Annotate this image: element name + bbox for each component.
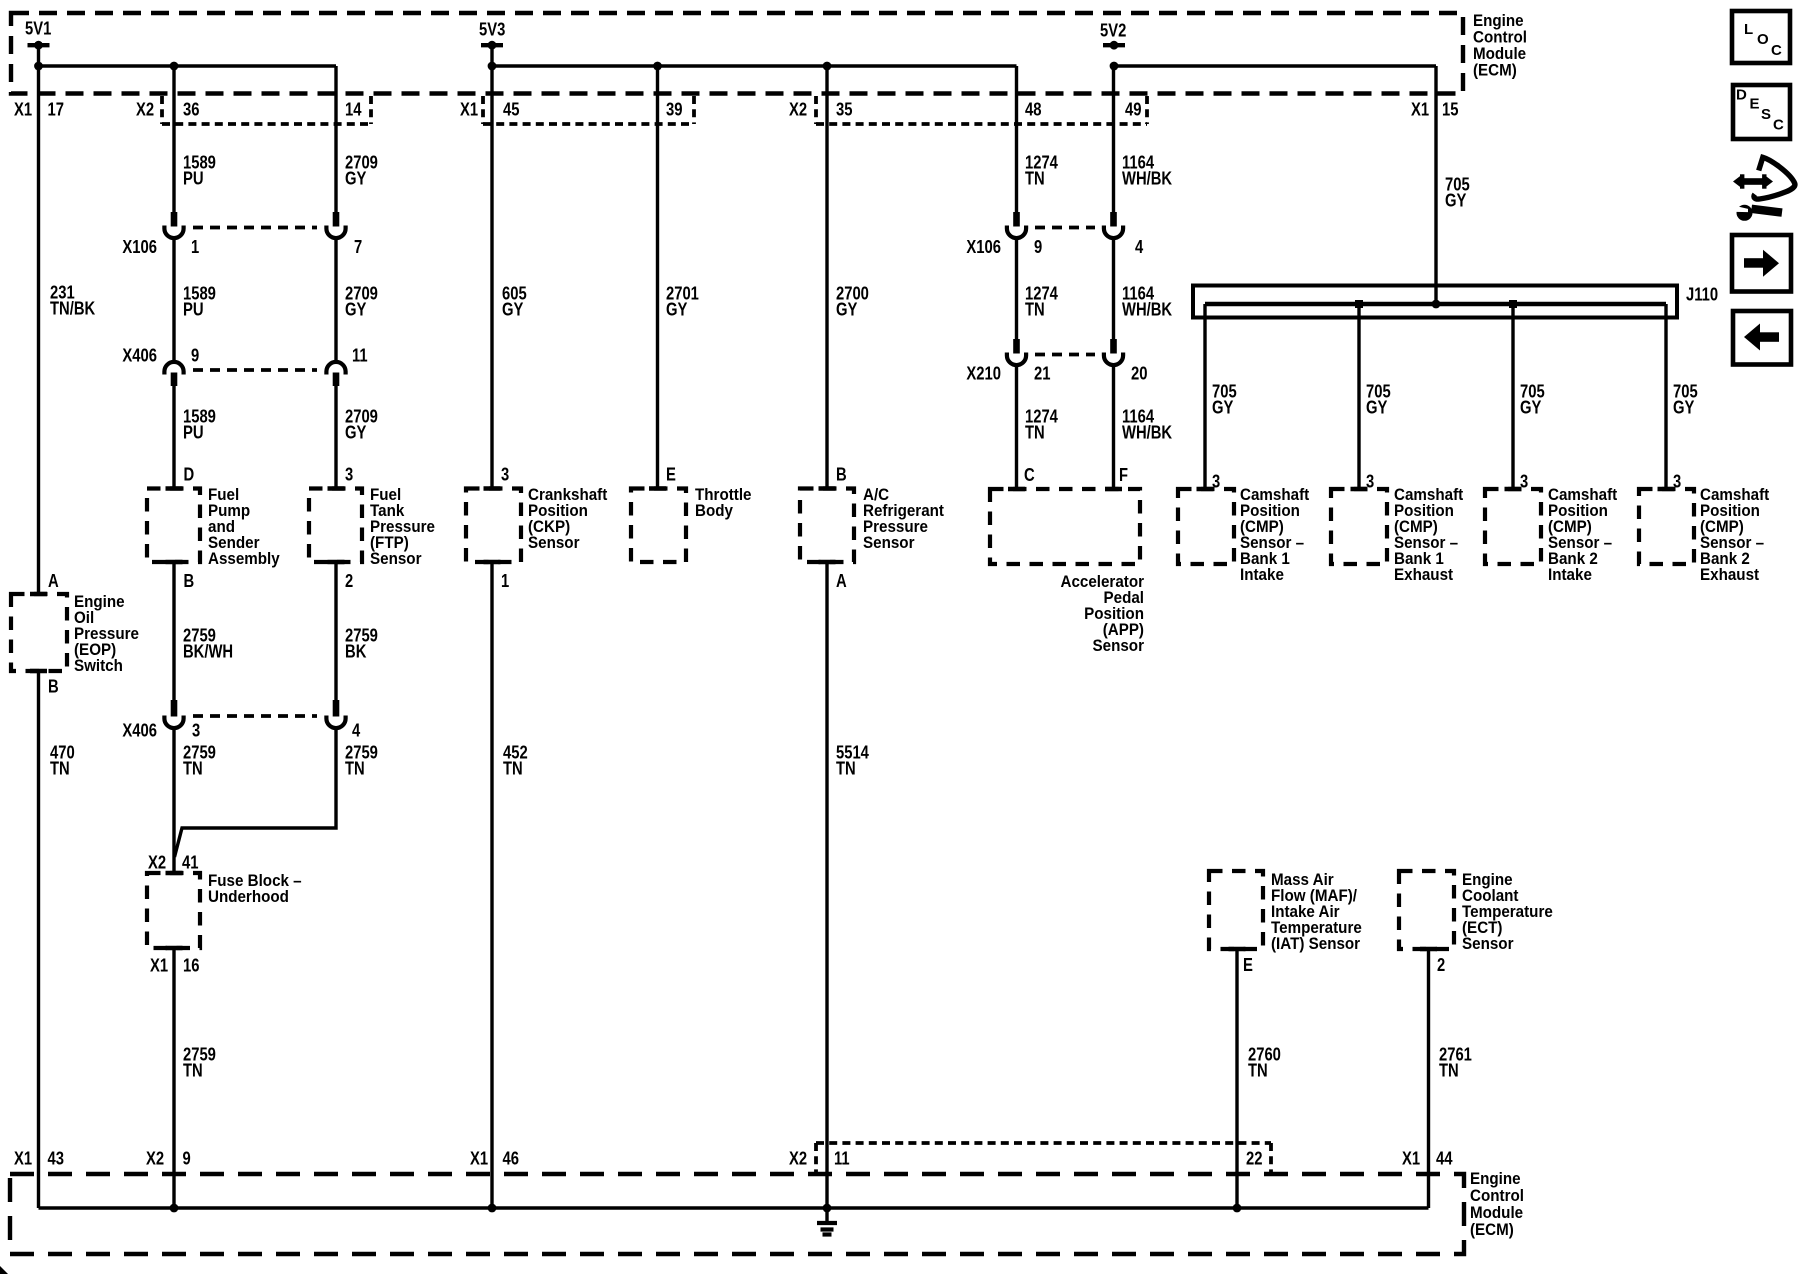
svg-text:(ECM): (ECM) — [1473, 62, 1517, 80]
splice pack J110 — [1193, 284, 1718, 318]
svg-text:9: 9 — [1034, 236, 1042, 257]
CMP sensor 4 label — [1700, 486, 1770, 584]
svg-text:B: B — [836, 464, 847, 485]
svg-text:Engine: Engine — [1473, 12, 1524, 30]
svg-text:9: 9 — [191, 345, 199, 366]
wire 705 GY (J110 to CMP sensor 1) — [1205, 304, 1237, 489]
connector X2 bracket (pins 11,22) — [816, 1143, 1271, 1172]
svg-text:GY: GY — [1366, 397, 1388, 418]
connector X106 pin 9 — [966, 212, 1042, 257]
terminal 5V2 — [1100, 20, 1126, 50]
ECM pin 22 — [1246, 1148, 1263, 1169]
svg-text:14: 14 — [345, 99, 362, 120]
svg-text:Sensor: Sensor — [1093, 637, 1145, 655]
ECM pin X2 35 — [789, 99, 853, 120]
ECM pin 49 — [1125, 99, 1142, 120]
svg-text:43: 43 — [48, 1148, 65, 1169]
svg-text:22: 22 — [1246, 1148, 1263, 1169]
svg-text:48: 48 — [1025, 99, 1042, 120]
svg-text:X406: X406 — [122, 345, 157, 366]
svg-text:WH/BK: WH/BK — [1122, 168, 1173, 189]
ECM pin X1 44 — [1402, 1148, 1453, 1169]
EOP pin A — [48, 570, 59, 591]
accelerator pedal position sensor box — [990, 489, 1140, 564]
svg-text:GY: GY — [345, 168, 367, 189]
svg-text:9: 9 — [183, 1148, 191, 1169]
svg-text:GY: GY — [345, 422, 367, 443]
svg-text:X1: X1 — [150, 955, 168, 976]
svg-text:Body: Body — [695, 502, 734, 520]
svg-text:Module: Module — [1473, 45, 1526, 63]
FTP sensor pin 3 — [345, 464, 353, 485]
svg-text:L: L — [1744, 21, 1753, 38]
X106 link dashes (9-4) — [1035, 226, 1095, 230]
wire 705 GY (J110 to CMP sensor 3) — [1513, 304, 1545, 489]
svg-text:GY: GY — [666, 299, 688, 320]
svg-text:Exhaust: Exhaust — [1394, 566, 1454, 584]
svg-text:X1: X1 — [460, 99, 478, 120]
svg-text:1: 1 — [501, 570, 509, 591]
connector X106 pin 1 — [122, 212, 199, 257]
wire 2700 GY (X2-35 to A/C sensor B) — [827, 66, 869, 489]
X210 link dashes (21-20) — [1035, 353, 1095, 357]
connector X2 bracket (pins 36,14) — [162, 96, 371, 124]
svg-text:Control: Control — [1473, 29, 1527, 47]
X106 link dashes (1-7) — [193, 226, 317, 230]
svg-text:BK/WH: BK/WH — [183, 641, 233, 662]
svg-text:39: 39 — [666, 99, 683, 120]
svg-text:O: O — [1757, 31, 1769, 48]
ECM bottom label — [1470, 1170, 1524, 1239]
svg-text:GY: GY — [502, 299, 524, 320]
svg-text:49: 49 — [1125, 99, 1142, 120]
ground G103 — [817, 1208, 837, 1235]
wire 2761 TN (ECT 2 to X1-44) — [1429, 949, 1472, 1208]
FTP sensor pin 2 — [345, 570, 353, 591]
svg-text:PU: PU — [183, 168, 204, 189]
svg-text:GY: GY — [836, 299, 858, 320]
wire 2759 TN (X406-3 to fuse block X2-41) — [174, 728, 216, 873]
svg-text:X1: X1 — [470, 1148, 488, 1169]
svg-text:36: 36 — [183, 99, 200, 120]
fuel tank pressure sensor box — [309, 489, 362, 563]
connector X406 pin 3 — [122, 700, 200, 741]
svg-text:17: 17 — [48, 99, 65, 120]
CMP sensor 3 pin 3 — [1520, 471, 1528, 492]
svg-text:X1: X1 — [14, 1148, 32, 1169]
wire 1164 WH/BK (5V2 pin 49 to X106-4) — [1114, 66, 1173, 212]
svg-text:D: D — [184, 464, 195, 485]
fuel pump label — [208, 486, 280, 568]
wire 5V1 bus — [34, 62, 336, 71]
svg-text:A: A — [48, 570, 59, 591]
FTP sensor label — [370, 486, 435, 568]
svg-text:X1: X1 — [14, 99, 32, 120]
CKP sensor pin 3 — [501, 464, 509, 485]
ECM pin X1 43 — [14, 1148, 64, 1169]
fuel pump and sender assembly box — [147, 489, 200, 563]
wire 2760 TN (MAF E to pin 22) — [1237, 949, 1281, 1208]
svg-text:Intake: Intake — [1548, 566, 1592, 584]
throttle body label — [695, 486, 752, 520]
A/C sensor label — [863, 486, 944, 552]
wire 2759 BK/WH (fuel pump B to X406-3) — [174, 562, 233, 700]
svg-text:5V1: 5V1 — [25, 18, 51, 39]
wire 2709 GY (pin 14 to X106-7) — [336, 66, 378, 212]
svg-text:Sensor: Sensor — [1462, 935, 1514, 953]
ECM pin X1 46 — [470, 1148, 519, 1169]
svg-text:TN: TN — [345, 758, 365, 779]
wire 1164 WH/BK (X210-20 to APP sensor F) — [1114, 365, 1173, 489]
svg-text:TN: TN — [503, 758, 523, 779]
svg-text:15: 15 — [1442, 99, 1459, 120]
svg-text:X106: X106 — [966, 236, 1001, 257]
MAF/IAT sensor label — [1271, 871, 1362, 953]
svg-text:5V3: 5V3 — [479, 19, 505, 40]
CMP sensor 1 label — [1240, 486, 1310, 584]
svg-text:B: B — [184, 570, 195, 591]
svg-text:Control: Control — [1470, 1187, 1524, 1205]
wire 2709 GY (X106-7 to X406-11) — [336, 238, 378, 360]
wire 1589 PU (X406-9 to fuel pump D) — [174, 386, 216, 489]
svg-text:11: 11 — [352, 345, 368, 366]
svg-text:PU: PU — [183, 422, 204, 443]
svg-text:C: C — [1771, 42, 1782, 59]
svg-text:WH/BK: WH/BK — [1122, 299, 1173, 320]
ECM pin X2 36 — [136, 99, 200, 120]
throttle body box — [631, 489, 686, 563]
connector X210 pin 20 — [1104, 339, 1148, 384]
terminal 5V1 — [25, 18, 51, 50]
ECM pin 14 — [345, 99, 362, 120]
svg-text:X2: X2 — [136, 99, 154, 120]
svg-text:WH/BK: WH/BK — [1122, 422, 1173, 443]
EOP switch label — [74, 593, 139, 675]
svg-text:3: 3 — [192, 720, 200, 741]
ECT sensor label — [1462, 871, 1553, 953]
svg-text:E: E — [1243, 954, 1253, 975]
wire 5V3 bus — [488, 62, 1017, 71]
ECT pin 2 — [1437, 954, 1445, 975]
svg-text:J110: J110 — [1686, 284, 1718, 305]
svg-text:B: B — [48, 676, 59, 697]
ECM pin X1 45 — [460, 99, 520, 120]
wire 2759 BK (FTP 2 to X406-4) — [336, 562, 378, 700]
svg-text:C: C — [1024, 464, 1035, 485]
svg-text:(ECM): (ECM) — [1470, 1221, 1514, 1239]
svg-text:PU: PU — [183, 299, 204, 320]
svg-text:45: 45 — [503, 99, 520, 120]
camshaft position sensor box 3 — [1485, 489, 1541, 564]
wire 705 GY (X1-15 to J110) — [1436, 66, 1470, 304]
wire 705 GY (J110 to CMP sensor 2) — [1359, 304, 1391, 489]
forward arrow icon box — [1732, 235, 1791, 292]
connector X406 pin 11 — [326, 345, 367, 387]
wire 1274 TN (X210-21 to APP sensor C) — [1017, 365, 1059, 489]
back arrow icon box — [1733, 311, 1791, 365]
svg-text:Underhood: Underhood — [208, 888, 289, 906]
svg-text:X106: X106 — [122, 236, 157, 257]
svg-text:X2: X2 — [148, 852, 166, 873]
svg-text:5V2: 5V2 — [1100, 20, 1126, 41]
connector X1 bracket (pins 45,39) — [483, 96, 694, 124]
svg-text:4: 4 — [1135, 236, 1144, 257]
svg-text:TN: TN — [1025, 168, 1045, 189]
A/C sensor pin A — [836, 570, 847, 591]
crankshaft position sensor box — [466, 489, 521, 563]
camshaft position sensor box 4 — [1639, 489, 1694, 564]
page corner mark — [0, 1266, 8, 1274]
svg-text:Exhaust: Exhaust — [1700, 566, 1760, 584]
svg-text:Sensor: Sensor — [370, 550, 422, 568]
svg-text:Module: Module — [1470, 1204, 1523, 1222]
svg-text:44: 44 — [1436, 1148, 1453, 1169]
svg-text:TN/BK: TN/BK — [50, 298, 96, 319]
APP sensor pin F — [1119, 464, 1128, 485]
svg-text:Engine: Engine — [1470, 1170, 1521, 1188]
fuse block label — [208, 872, 302, 906]
svg-text:X1: X1 — [1402, 1148, 1420, 1169]
svg-text:TN: TN — [1025, 299, 1045, 320]
terminal 5V3 — [479, 19, 505, 50]
wire 231 TN/BK (X1-17 to EOP A) — [39, 45, 96, 594]
svg-text:20: 20 — [1131, 363, 1148, 384]
CMP sensor 2 label — [1394, 486, 1464, 584]
svg-text:3: 3 — [501, 464, 509, 485]
CKP sensor label — [528, 486, 608, 552]
svg-text:E: E — [1750, 95, 1760, 112]
connector X2 bracket (pins 35,48,49) — [816, 96, 1147, 124]
CMP sensor 2 pin 3 — [1366, 471, 1374, 492]
wire 470 TN (EOP B to ground bus) — [39, 671, 75, 1208]
ECM bottom dashed box (Engine Control Module) — [10, 1174, 1464, 1254]
wire 1164 WH/BK (X106-4 to X210-20) — [1114, 238, 1173, 339]
svg-text:GY: GY — [345, 299, 367, 320]
svg-text:GY: GY — [1445, 190, 1467, 211]
svg-text:GY: GY — [1673, 397, 1695, 418]
fuse block underhood box — [147, 873, 200, 948]
svg-text:35: 35 — [836, 99, 853, 120]
X406 link dashes (9-11) — [193, 368, 317, 372]
svg-text:S: S — [1761, 106, 1771, 123]
svg-text:Assembly: Assembly — [208, 550, 280, 568]
ECM pin X1 15 — [1411, 99, 1459, 120]
wire 452 TN (CKP 1 to X1-46) — [492, 562, 528, 1208]
svg-text:BK: BK — [345, 641, 367, 662]
APP sensor label — [1061, 573, 1145, 655]
throttle body pin E — [666, 464, 676, 485]
ECM pin 39 — [666, 99, 683, 120]
wire 2701 GY (pin 39 to throttle body E) — [658, 66, 699, 489]
svg-text:A: A — [836, 570, 847, 591]
svg-text:F: F — [1119, 464, 1128, 485]
wire 1589 PU (X106-1 to X406-9) — [174, 238, 216, 360]
svg-text:TN: TN — [183, 758, 203, 779]
svg-text:X2: X2 — [789, 1148, 807, 1169]
svg-text:TN: TN — [836, 758, 856, 779]
svg-text:X2: X2 — [789, 99, 807, 120]
fuel pump pin D — [184, 464, 195, 485]
svg-text:11: 11 — [834, 1148, 850, 1169]
svg-text:Sensor: Sensor — [863, 534, 915, 552]
svg-text:TN: TN — [183, 1060, 203, 1081]
X406 link dashes (3-4) — [193, 714, 317, 718]
wire 1589 PU (X2-36 to X106-1) — [174, 66, 216, 212]
LOC icon box — [1732, 11, 1790, 63]
connector X106 pin 7 — [326, 212, 362, 257]
svg-text:Sensor: Sensor — [528, 534, 580, 552]
svg-text:X1: X1 — [1411, 99, 1429, 120]
camshaft position sensor box 2 — [1331, 489, 1387, 564]
wire 2759 TN (X406-4 to fuse block) — [175, 728, 378, 857]
svg-text:GY: GY — [1520, 397, 1542, 418]
CKP sensor pin 1 — [501, 570, 509, 591]
MAF pin E — [1243, 954, 1253, 975]
svg-text:D: D — [1736, 86, 1747, 103]
svg-text:41: 41 — [182, 852, 199, 873]
svg-text:16: 16 — [183, 955, 200, 976]
DESC icon box — [1733, 85, 1790, 139]
wire 2709 GY (X406-11 to FTP sensor 3) — [336, 386, 378, 489]
CMP sensor 1 pin 3 — [1212, 471, 1220, 492]
ECM top dashed box (Engine Control Module) — [11, 13, 1463, 94]
camshaft position sensor box 1 — [1178, 489, 1234, 564]
fuse block pin X1 16 — [150, 955, 200, 976]
CMP sensor 4 pin 3 — [1673, 471, 1681, 492]
CMP sensor 3 label — [1548, 486, 1618, 584]
ECT sensor box — [1399, 871, 1454, 949]
wire 605 GY (X1-45 to CKP sensor 3) — [492, 45, 527, 488]
svg-text:4: 4 — [352, 720, 361, 741]
wire 5514 TN (A/C A to X2-11) — [827, 562, 869, 1208]
wire 705 GY (J110 to CMP sensor 4) — [1666, 304, 1698, 489]
APP sensor pin C — [1024, 464, 1035, 485]
ECM top label — [1473, 12, 1527, 80]
svg-text:(IAT) Sensor: (IAT) Sensor — [1271, 935, 1361, 953]
ground bus wire — [39, 1204, 1429, 1213]
svg-text:X210: X210 — [966, 363, 1001, 384]
wire 1274 TN (X106-9 to X210-21) — [1017, 238, 1059, 339]
ECM pin 48 — [1025, 99, 1042, 120]
connector X106 pin 4 — [1104, 212, 1144, 257]
svg-text:TN: TN — [1439, 1060, 1459, 1081]
svg-text:GY: GY — [1212, 397, 1234, 418]
wire 5V2 bus — [1110, 62, 1436, 71]
connector X210 pin 21 — [966, 339, 1050, 384]
A/C refrigerant pressure sensor box — [800, 489, 854, 563]
svg-text:2: 2 — [1437, 954, 1445, 975]
wire 2759 TN (fuse block X1-16 to X2-9) — [174, 948, 216, 1208]
svg-text:21: 21 — [1034, 363, 1051, 384]
svg-text:3: 3 — [345, 464, 353, 485]
ECM pin X2 11 — [789, 1148, 850, 1169]
fuse block pin X2 41 — [148, 852, 199, 873]
svg-text:X406: X406 — [122, 720, 157, 741]
ECM pin X2 9 — [146, 1148, 191, 1169]
connector X406 pin 4 — [326, 700, 360, 741]
A/C sensor pin B — [836, 464, 847, 485]
fuel pump pin B — [184, 570, 195, 591]
svg-text:X2: X2 — [146, 1148, 164, 1169]
svg-text:Intake: Intake — [1240, 566, 1284, 584]
svg-text:46: 46 — [503, 1148, 520, 1169]
svg-text:TN: TN — [50, 758, 70, 779]
svg-text:C: C — [1773, 116, 1784, 133]
engine oil pressure switch box — [11, 594, 67, 671]
svg-text:Switch: Switch — [74, 657, 123, 675]
EOP pin B — [48, 676, 59, 697]
wire 1274 TN (pin 48 to X106-9) — [1017, 66, 1059, 212]
MAF/IAT sensor box — [1209, 871, 1263, 949]
harness routing wrench icon — [1731, 157, 1795, 221]
svg-text:1: 1 — [191, 236, 199, 257]
svg-text:TN: TN — [1248, 1060, 1268, 1081]
connector X406 pin 9 — [122, 345, 199, 387]
svg-text:E: E — [666, 464, 676, 485]
svg-text:2: 2 — [345, 570, 353, 591]
svg-text:7: 7 — [354, 236, 362, 257]
svg-text:TN: TN — [1025, 422, 1045, 443]
ECM pin X1 17 — [14, 99, 64, 120]
